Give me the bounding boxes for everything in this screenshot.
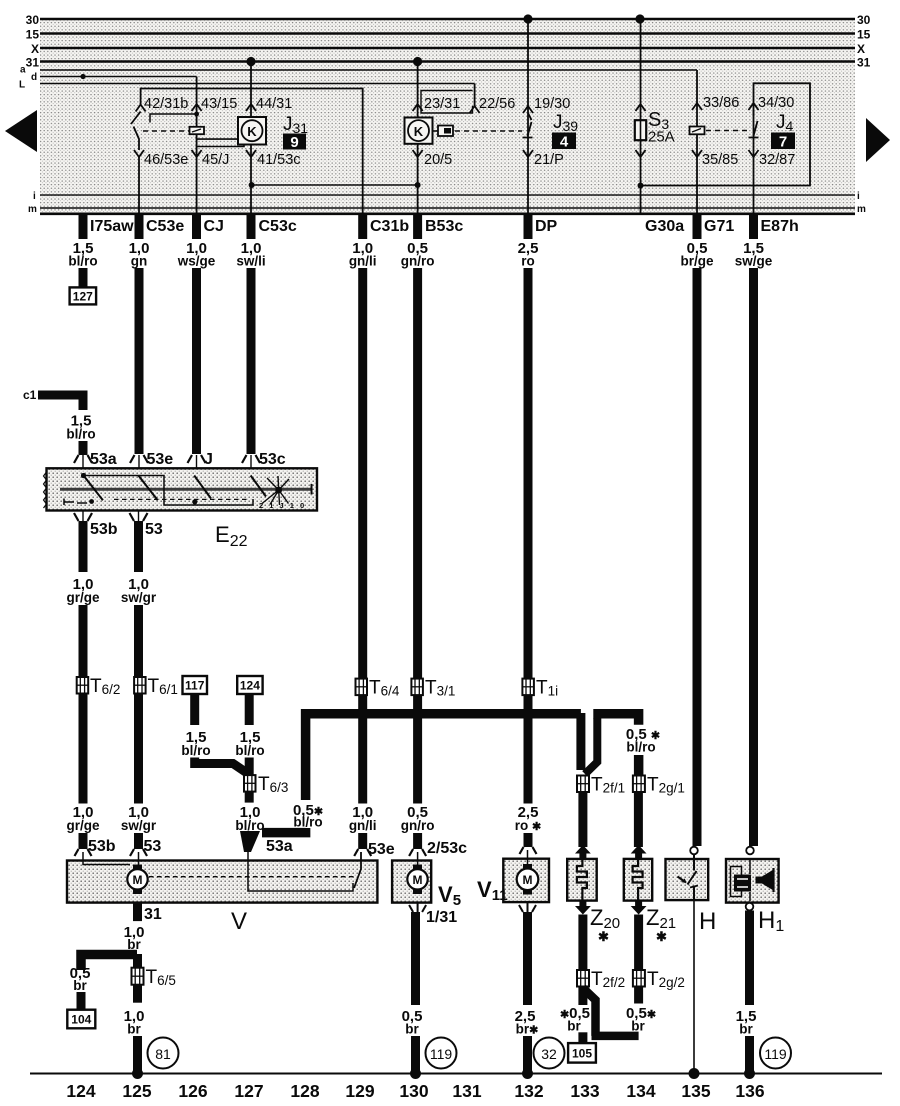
jog wire T2f/2 to Z21 bar: [583, 988, 596, 1036]
terminal arrow 42/31b: [136, 105, 146, 112]
connector T2g/2: [633, 970, 645, 987]
svg-text:br✱: br✱: [516, 1022, 539, 1037]
connector T1i: [522, 679, 534, 696]
svg-text:sw/ge: sw/ge: [735, 254, 773, 269]
wire E87h with loop over J4 to fuse bottom: [641, 83, 811, 214]
svg-text:sw/gr: sw/gr: [121, 590, 157, 605]
J4 mechanical dashed link: [706, 130, 747, 132]
connector T2g/1: [633, 776, 645, 793]
svg-text:53c: 53c: [259, 451, 286, 468]
wire T2g/1 to Z21: [634, 792, 643, 847]
svg-text:M: M: [133, 873, 143, 887]
svg-text:81: 81: [155, 1046, 171, 1062]
J39 switch lever: [523, 113, 533, 138]
J39 coil box K: [405, 118, 433, 144]
wire below 117: [190, 694, 199, 725]
E22 wash contact starburst: [262, 476, 289, 505]
terminal arrow 41/53c: [246, 150, 256, 157]
svg-text:gn/ro: gn/ro: [401, 818, 435, 833]
wire V down to T6/5: [133, 954, 142, 968]
branch bar to 104: [81, 955, 137, 971]
wire Z20 to T2f/2: [578, 915, 587, 971]
svg-text:bl/ro: bl/ro: [66, 427, 95, 442]
svg-text:bl/ro: bl/ro: [235, 743, 264, 758]
wire 53 into V box: [134, 833, 143, 849]
wire C53c vertical (line31 to coil to C53c terminal): [250, 62, 252, 215]
svg-text:31: 31: [26, 56, 40, 70]
terminal arrow 45/J: [192, 150, 202, 157]
terminal arrow 20/5: [413, 150, 423, 157]
arrow 53a into V box: [240, 831, 260, 852]
connector T6/2: [77, 677, 89, 694]
svg-text:41/53c: 41/53c: [257, 152, 301, 168]
svg-text:125: 125: [122, 1081, 151, 1101]
E22 junction dot 53a: [81, 473, 86, 478]
svg-text:23/31: 23/31: [424, 96, 460, 112]
V5 box: [392, 861, 431, 903]
svg-text:35/85: 35/85: [702, 152, 738, 168]
E22 box: [47, 468, 318, 510]
svg-text:sw/gr: sw/gr: [121, 818, 157, 833]
svg-text:br: br: [405, 1022, 419, 1037]
svg-text:bl/ro: bl/ro: [235, 818, 264, 833]
fuse arrow down: [636, 150, 646, 157]
svg-text:V: V: [231, 908, 247, 935]
V11 exit arrow: [519, 902, 536, 912]
terminal stub C31b: [358, 213, 367, 239]
svg-text:1/31: 1/31: [426, 909, 457, 926]
wire B53c down to T3/1: [413, 268, 422, 678]
junction dot S3/J4 bottom: [638, 183, 644, 189]
svg-text:ws/ge: ws/ge: [177, 254, 216, 269]
svg-text:d: d: [31, 72, 37, 83]
svg-text:30: 30: [26, 13, 40, 27]
terminal stub E87h: [749, 213, 758, 239]
V box: [67, 861, 377, 903]
wire 53b T6/2 to V: [79, 694, 88, 804]
junction dot i-segment left: [249, 182, 255, 188]
Z21 entry arrow: [631, 845, 647, 859]
J4 switch lever: [749, 110, 759, 138]
wire V11 to rail: [523, 1036, 532, 1075]
svg-text:105: 105: [572, 1047, 592, 1061]
wire V11 down: [523, 912, 532, 1005]
E22 junction dot J: [192, 499, 197, 504]
J4 plug symbol: [690, 127, 705, 135]
E22 dashed line: [114, 498, 250, 500]
wire Z21 to T2g/2: [634, 915, 643, 971]
svg-text:bl/ro: bl/ro: [293, 815, 322, 830]
terminal arrow 22/56: [470, 106, 480, 113]
svg-text:K: K: [414, 124, 424, 139]
relay position box 7: [771, 133, 795, 150]
V5 motor M: [407, 852, 427, 894]
rail junction dot 81 wire: [132, 1068, 143, 1079]
J39 plug symbol: [433, 130, 439, 132]
terminal arrow 32/87: [749, 150, 759, 157]
terminal stub CJ: [192, 213, 201, 239]
V motor M: [127, 865, 147, 895]
wire below T6/3: [245, 792, 254, 803]
rail junction dot H: [689, 1068, 700, 1079]
wire B53c into V5 box: [413, 833, 422, 849]
svg-text:31: 31: [144, 906, 162, 923]
V output stub 31: [133, 903, 142, 922]
svg-text:15: 15: [857, 28, 871, 42]
E22 fixed contacts bottom left: [64, 499, 87, 506]
fuse S3 body: [635, 120, 646, 140]
connector T6/3: [244, 775, 256, 792]
svg-text:32: 32: [541, 1046, 557, 1062]
svg-text:m: m: [28, 204, 37, 215]
E22 lever J: [194, 476, 211, 499]
ground symbol 32: [534, 1038, 565, 1069]
wire DP T1i to V11: [524, 695, 533, 803]
wire G71 vertical (a-line to G71 terminal): [696, 70, 698, 214]
V11 motor M: [517, 850, 539, 895]
terminal arrow 33/86: [692, 103, 702, 110]
svg-text:M: M: [413, 873, 423, 887]
svg-text:131: 131: [452, 1081, 481, 1101]
wire to ground rail: [133, 1036, 142, 1075]
svg-text:bl/ro: bl/ro: [68, 254, 97, 269]
wire B53c vertical (line31 to coil to B53c terminal): [417, 62, 419, 215]
wire 53 gauge text to T6/1: [134, 605, 143, 677]
svg-text:45/J: 45/J: [202, 152, 229, 168]
connection box 117: [183, 676, 208, 694]
svg-text:124: 124: [66, 1081, 95, 1101]
svg-text:129: 129: [345, 1081, 374, 1101]
terminal stub C53c: [247, 213, 256, 239]
svg-text:119: 119: [430, 1046, 453, 1062]
wire I75aw to connection 127: [79, 268, 88, 289]
wire 42/31b to C31b (header line): [141, 89, 363, 215]
connection box 127: [70, 287, 97, 304]
junction dot line30 x528: [523, 14, 532, 23]
svg-text:53a: 53a: [266, 838, 293, 855]
svg-text:✱: ✱: [656, 929, 667, 944]
svg-text:sw/li: sw/li: [236, 254, 265, 269]
J31 coil box K: [238, 117, 266, 145]
ground rail: [30, 1073, 882, 1075]
E22 input arrow J: [188, 455, 206, 469]
internal line a (feeds G71): [40, 69, 697, 71]
relay position box 4: [552, 133, 576, 150]
svg-text:br: br: [739, 1022, 753, 1037]
wire 53b gauge text to T6/2: [79, 605, 88, 677]
junction dot i-segment right: [415, 182, 421, 188]
svg-text:130: 130: [399, 1081, 428, 1101]
bus line 15: [40, 32, 855, 34]
ground symbol 119 right: [760, 1038, 791, 1069]
svg-text:119: 119: [764, 1046, 787, 1062]
svg-text:G30a: G30a: [645, 218, 684, 235]
svg-text:B53c: B53c: [425, 218, 463, 235]
svg-text:br: br: [73, 978, 87, 993]
bar1 drop to T2f/1: [576, 713, 585, 770]
svg-text:C53c: C53c: [259, 218, 297, 235]
wire G30a vertical (line30 to fuse to band bottom): [640, 19, 642, 214]
band bottom edge: [40, 213, 855, 216]
svg-text:44/31: 44/31: [256, 96, 292, 112]
svg-text:gr/ge: gr/ge: [66, 590, 99, 605]
svg-text:✱: ✱: [598, 929, 609, 944]
wire C31b T6/4 to V: [358, 695, 367, 803]
junction dot line d x83: [80, 74, 85, 79]
terminal arrow 23/31: [413, 104, 423, 111]
connector T6/5: [132, 968, 144, 985]
connector T6/1: [134, 677, 146, 694]
internal line m: [40, 207, 855, 209]
connection box 104: [67, 1010, 95, 1029]
svg-text:30: 30: [857, 13, 871, 27]
svg-text:33/86: 33/86: [703, 95, 739, 111]
Z20 entry arrow: [575, 845, 591, 859]
junction dot line31 x417.6: [413, 57, 422, 66]
wire DP vertical (line30 to DP terminal): [527, 19, 529, 214]
wire 53b into V box: [79, 833, 88, 849]
svg-text:133: 133: [570, 1081, 599, 1101]
svg-text:X: X: [857, 42, 865, 56]
bar joining Z20 jog and Z21: [592, 1032, 639, 1041]
svg-text:21/P: 21/P: [534, 152, 564, 168]
svg-text:gn: gn: [131, 254, 148, 269]
wire T6/5 down: [133, 985, 142, 1003]
svg-text:124: 124: [240, 679, 260, 693]
svg-text:31: 31: [857, 56, 871, 70]
rail junction dot V5: [410, 1068, 421, 1079]
terminal stub I75aw: [79, 213, 88, 239]
svg-text:gn/ro: gn/ro: [401, 254, 435, 269]
wire DP down to T1i: [524, 268, 533, 678]
E22 output arrow 53: [130, 511, 148, 522]
svg-text:46/53e: 46/53e: [144, 152, 188, 168]
svg-text:32/87: 32/87: [759, 152, 795, 168]
V internal switch lever: [354, 852, 361, 888]
wire to E22 53a input: [79, 441, 88, 455]
connector T2f/1: [577, 776, 589, 793]
connector T6/4: [356, 679, 368, 696]
V entry arrow 53b: [75, 849, 92, 856]
wire DP into V11 box: [524, 833, 533, 847]
V internal wire 53b to motor: [83, 852, 130, 865]
thick wire from c1 corner down: [38, 395, 83, 410]
J31 mechanical dashed link: [143, 130, 189, 132]
wire E87h down to horn H1: [749, 268, 758, 846]
J31 coil wire 45/J to coil bottom: [197, 145, 244, 151]
wire G71 down to horn plate H: [693, 268, 702, 846]
Z21 heater element: [633, 859, 643, 900]
svg-text:E87h: E87h: [761, 218, 799, 235]
svg-text:53b: 53b: [88, 838, 116, 855]
svg-text:53: 53: [144, 838, 162, 855]
wire 124 to T6/3: [245, 758, 254, 776]
svg-text:G71: G71: [704, 218, 734, 235]
svg-text:i: i: [857, 191, 860, 202]
svg-text:136: 136: [735, 1081, 764, 1101]
svg-text:117: 117: [185, 679, 205, 693]
svg-text:43/15: 43/15: [201, 96, 237, 112]
connection box 105: [568, 1043, 596, 1063]
svg-text:L: L: [19, 80, 25, 91]
Z20 heater element: [577, 859, 587, 900]
svg-text:br: br: [567, 1019, 581, 1034]
wire C53c down to E22: [247, 268, 256, 454]
svg-text:m: m: [857, 204, 866, 215]
connection box 124: [237, 676, 262, 694]
terminal stub DP: [524, 213, 533, 239]
wire V5 down: [411, 912, 420, 1005]
E22 lever 53c: [251, 476, 266, 497]
svg-text:19/30: 19/30: [534, 96, 570, 112]
V internal dashed link: [149, 876, 357, 878]
H box: [666, 859, 709, 900]
svg-text:132: 132: [514, 1081, 543, 1101]
svg-text:128: 128: [290, 1081, 319, 1101]
svg-text:c1: c1: [23, 388, 37, 402]
svg-text:gn/li: gn/li: [349, 254, 377, 269]
E22 internal wire from 53a contact: [84, 476, 254, 506]
terminal stub G71: [693, 213, 702, 239]
junction dot line30 x640: [635, 14, 644, 23]
svg-text:42/31b: 42/31b: [144, 96, 188, 112]
svg-text:127: 127: [234, 1081, 263, 1101]
wire T2f/2 down to 105: [578, 987, 587, 1006]
svg-text:gn/li: gn/li: [349, 818, 377, 833]
connection segment C53c-B53c at y185: [252, 184, 418, 186]
H contact symbol: [688, 855, 697, 901]
svg-text:34/30: 34/30: [758, 95, 794, 111]
svg-text:C31b: C31b: [370, 218, 409, 235]
svg-text:127: 127: [73, 290, 93, 304]
svg-text:53: 53: [145, 521, 163, 538]
svg-text:DP: DP: [535, 218, 558, 235]
wire riser lower to 53a arrow: [262, 828, 306, 833]
wire V5 to rail: [411, 1036, 420, 1075]
terminal stub C53e: [135, 213, 144, 239]
J31 fixed contact: [150, 114, 197, 123]
svg-text:X: X: [31, 42, 39, 56]
terminal arrow 44/31: [246, 104, 256, 111]
bar2 horizontal to T2g/1: [593, 714, 638, 725]
terminal arrow 43/15: [192, 104, 202, 111]
svg-text:104: 104: [71, 1013, 91, 1027]
V11 entry arrow: [520, 847, 537, 854]
H connector circle: [690, 847, 698, 855]
J31 coil wire from plug to coil box: [197, 134, 238, 139]
E22 lever 53a: [84, 476, 103, 501]
J31 plug symbol: [190, 127, 205, 134]
svg-text:9: 9: [290, 134, 298, 151]
E22 mechanical bar: [60, 488, 312, 491]
svg-text:bl/ro: bl/ro: [626, 740, 655, 755]
V11 box: [503, 859, 549, 902]
terminal stub B53c: [413, 213, 422, 239]
H1 connector circle top: [746, 847, 754, 855]
svg-text:135: 135: [681, 1081, 710, 1101]
wire C53e below 46/53e: [138, 157, 140, 214]
wire 0,5 bl/ro riser from bar to 53a: [306, 714, 581, 800]
relay position box 9: [283, 134, 306, 150]
junction dot line31 x251: [246, 57, 255, 66]
rail junction dot H1: [744, 1068, 755, 1079]
wire C53e down to E22: [135, 268, 144, 454]
wire H to rail thin: [693, 900, 695, 1074]
svg-text:53a: 53a: [90, 451, 117, 468]
internal line i: [40, 194, 855, 196]
svg-text:br: br: [127, 1022, 141, 1037]
svg-text:I75aw: I75aw: [90, 218, 134, 235]
svg-text:M: M: [523, 873, 533, 887]
wire CJ vertical in band (d-line to CJ terminal): [196, 77, 198, 215]
svg-text:i: i: [33, 191, 36, 202]
wire 53b E22 to gauge text: [79, 521, 88, 572]
svg-text:2 1 J 1 0: 2 1 J 1 0: [259, 501, 306, 510]
V internal wire from 53a: [248, 852, 353, 891]
bar2 drop and jog to T2f/1: [585, 718, 597, 774]
wire H1 down: [745, 911, 754, 1006]
J31 switch lever: [131, 112, 141, 151]
bus line 31: [40, 60, 855, 62]
svg-text:2/53c: 2/53c: [427, 840, 467, 857]
H1 connector circle bottom: [746, 903, 754, 911]
bus line 30: [40, 18, 855, 21]
Z20 box: [567, 859, 597, 901]
svg-text:53e: 53e: [147, 451, 174, 468]
wire L-line corner to 22/56: [474, 84, 476, 107]
svg-text:134: 134: [626, 1081, 655, 1101]
J39 mechanical dashed link: [455, 130, 522, 132]
terminal arrow 46/53e: [134, 150, 144, 157]
connector T3/1: [411, 679, 423, 696]
terminal arrow 19/30: [523, 106, 533, 113]
V5 entry arrow 2/53c: [409, 849, 426, 856]
svg-text:ro: ro: [521, 254, 535, 269]
svg-text:br: br: [631, 1019, 645, 1034]
svg-text:126: 126: [178, 1081, 207, 1101]
connector T2f/2: [577, 970, 589, 987]
wire T2f/1 to Z20: [578, 792, 587, 847]
svg-text:a: a: [20, 65, 26, 76]
svg-text:ro ✱: ro ✱: [515, 818, 541, 833]
V5 exit arrow: [409, 903, 426, 912]
wire branch to 104: [77, 992, 86, 1010]
Z20 exit arrow: [575, 901, 591, 915]
E22 input arrow 53a: [74, 455, 92, 469]
wire CJ down to E22: [192, 268, 201, 454]
Z21 box: [624, 859, 652, 901]
svg-text:gr/ge: gr/ge: [66, 818, 99, 833]
ground symbol 81: [148, 1038, 179, 1069]
E22 input arrow 53e: [130, 455, 148, 469]
svg-text:bl/ro: bl/ro: [181, 743, 210, 758]
H1 box: [726, 859, 779, 903]
wire C31b into V box: [358, 833, 367, 849]
E22 lever 53e: [138, 476, 157, 501]
svg-text:22/56: 22/56: [479, 96, 515, 112]
wire to T2g/1: [634, 755, 644, 776]
junction dot 43/15: [194, 112, 199, 117]
wire 117 to T6/3 merge: [195, 758, 249, 775]
wire below 124: [245, 694, 254, 725]
svg-text:H: H: [699, 908, 716, 935]
bus line X: [40, 47, 855, 49]
fuse arrow up: [636, 104, 646, 111]
wire C31b down to T6/4: [358, 268, 367, 678]
H1 horn symbol: [731, 860, 774, 901]
svg-text:20/5: 20/5: [424, 152, 452, 168]
svg-text:C53e: C53e: [146, 218, 184, 235]
